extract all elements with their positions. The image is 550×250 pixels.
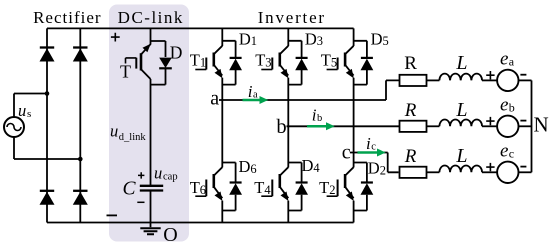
svg-text:R: R xyxy=(404,146,417,167)
svg-text:u: u xyxy=(110,122,118,141)
svg-text:d_link: d_link xyxy=(119,132,147,143)
svg-text:D: D xyxy=(302,156,314,175)
svg-text:a: a xyxy=(253,90,258,101)
svg-text:L: L xyxy=(455,52,467,74)
svg-text:N: N xyxy=(534,113,549,137)
svg-text:4: 4 xyxy=(264,183,271,197)
svg-text:6: 6 xyxy=(200,183,206,197)
svg-text:R: R xyxy=(404,100,417,121)
svg-text:e: e xyxy=(500,141,508,162)
svg-text:1: 1 xyxy=(200,56,206,70)
svg-text:5: 5 xyxy=(383,34,389,48)
svg-text:c: c xyxy=(509,147,514,161)
svg-text:u: u xyxy=(154,164,162,183)
svg-text:C: C xyxy=(123,178,137,199)
svg-text:D: D xyxy=(239,157,251,176)
svg-text:4: 4 xyxy=(313,161,320,175)
svg-text:6: 6 xyxy=(250,162,256,176)
svg-text:T: T xyxy=(190,51,200,70)
svg-text:T: T xyxy=(254,178,264,197)
svg-text:T: T xyxy=(190,178,200,197)
svg-text:Rectifier: Rectifier xyxy=(33,8,101,27)
svg-text:D: D xyxy=(239,29,251,48)
svg-text:a: a xyxy=(509,55,515,69)
svg-text:b: b xyxy=(317,113,322,124)
svg-text:D: D xyxy=(305,29,317,48)
svg-text:e: e xyxy=(500,95,508,116)
svg-text:3: 3 xyxy=(317,34,323,48)
svg-text:D: D xyxy=(368,159,380,178)
svg-text:c: c xyxy=(371,141,376,152)
svg-text:D: D xyxy=(371,29,383,48)
svg-text:2: 2 xyxy=(329,183,335,197)
svg-text:O: O xyxy=(163,224,177,246)
svg-text:5: 5 xyxy=(331,56,337,70)
svg-text:e: e xyxy=(500,49,508,70)
svg-text:T: T xyxy=(255,51,265,70)
svg-text:a: a xyxy=(210,87,219,109)
svg-text:Inverter: Inverter xyxy=(258,8,326,27)
svg-text:T: T xyxy=(321,51,331,70)
svg-text:L: L xyxy=(455,145,467,167)
svg-text:cap: cap xyxy=(163,172,178,183)
svg-text:b: b xyxy=(509,101,515,115)
svg-text:2: 2 xyxy=(380,163,386,177)
svg-text:b: b xyxy=(276,116,286,138)
svg-text:1: 1 xyxy=(251,34,257,48)
svg-text:R: R xyxy=(404,53,417,74)
svg-text:u: u xyxy=(18,101,26,120)
svg-text:D: D xyxy=(170,42,183,62)
svg-text:3: 3 xyxy=(265,56,271,70)
svg-text:L: L xyxy=(455,99,467,121)
svg-text:s: s xyxy=(27,108,31,120)
svg-text:T: T xyxy=(120,62,131,82)
svg-text:T: T xyxy=(319,178,329,197)
svg-text:DC-link: DC-link xyxy=(118,8,184,27)
svg-text:c: c xyxy=(342,141,351,163)
